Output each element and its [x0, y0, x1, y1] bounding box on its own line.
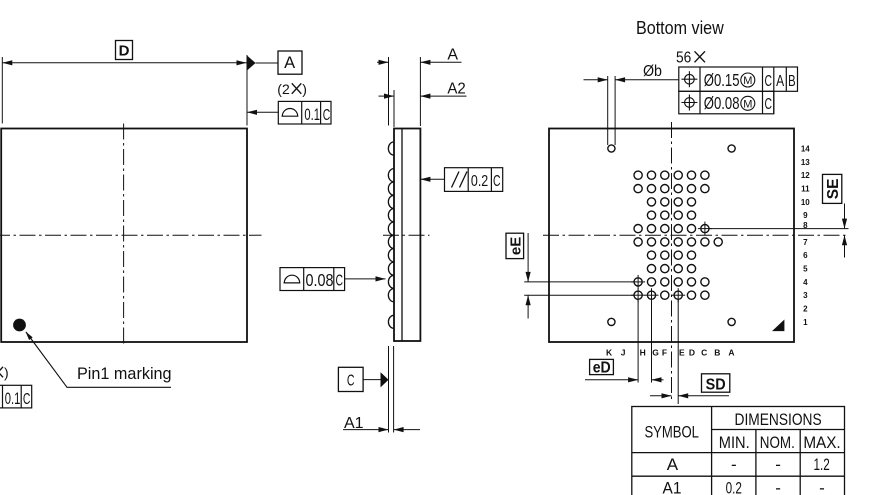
svg-text:D: D: [689, 347, 695, 357]
svg-text:M: M: [743, 98, 752, 110]
svg-text:DIMENSIONS: DIMENSIONS: [735, 411, 822, 430]
svg-text:0.2: 0.2: [471, 173, 488, 191]
dimension D extension line right: [246, 55, 248, 126]
table header MIN NOM MAX: [719, 433, 841, 452]
eE extension lines: [524, 281, 633, 283]
svg-text:A: A: [776, 71, 784, 89]
leader from parallelism FCF: [420, 177, 444, 182]
SE extension line from ball C8: [710, 228, 849, 230]
svg-text:H: H: [640, 347, 646, 357]
ball row 4: [647, 278, 709, 286]
pin1 marking label: [77, 365, 172, 383]
svg-text:A: A: [447, 46, 458, 63]
svg-text:E: E: [679, 347, 685, 357]
svg-text:K: K: [606, 347, 613, 357]
dimension A2 extension line: [393, 90, 395, 127]
svg-text:-: -: [775, 455, 781, 474]
svg-text:C: C: [336, 271, 344, 289]
svg-text:Bottom view: Bottom view: [636, 17, 724, 38]
FCF row1 text: [704, 71, 796, 91]
svg-text:0.1: 0.1: [5, 390, 21, 409]
svg-text:B: B: [714, 347, 720, 357]
FCF 0.1 C bottom-left (cut off): [0, 385, 32, 409]
svg-text:-: -: [775, 479, 781, 495]
svg-text:NOM.: NOM.: [760, 434, 795, 453]
(2X) label bottom-left (cut off): [0, 365, 9, 381]
position symbol row2: [681, 95, 697, 111]
table row A1: [663, 479, 825, 495]
svg-text:A: A: [728, 347, 734, 357]
svg-text:M: M: [743, 75, 752, 87]
pin1 marking dot: [13, 319, 26, 332]
svg-text:(2: (2: [277, 81, 290, 97]
SD extension line from ball E3: [677, 300, 679, 404]
svg-text:A: A: [284, 54, 295, 72]
eE dimension line: [526, 233, 531, 319]
svg-text:C: C: [701, 347, 707, 357]
eD extension lines from balls H3 H4: [637, 300, 639, 383]
svg-text:10: 10: [801, 198, 810, 207]
top view package outline: [1, 129, 247, 343]
seating plane FCF 0.1 C: [278, 101, 331, 125]
position FCF frame: [679, 67, 798, 114]
svg-text:A2: A2: [447, 80, 465, 98]
svg-text:B: B: [788, 71, 795, 90]
svg-text:13: 13: [801, 158, 810, 167]
datum A symbol: [247, 51, 302, 74]
svg-text:C: C: [764, 95, 772, 113]
svg-text:56: 56: [676, 49, 691, 67]
svg-text:-: -: [731, 455, 737, 474]
crossed balls (datum targets): [631, 222, 712, 303]
svg-text:D: D: [119, 43, 130, 60]
svg-text:C: C: [323, 106, 331, 124]
top view horizontal centerline: [0, 234, 262, 236]
svg-text:A: A: [667, 455, 679, 474]
diameter b dimension line: [584, 77, 679, 82]
svg-text:1.2: 1.2: [813, 456, 829, 475]
dimension A2 line: [379, 94, 467, 99]
svg-text:1: 1: [803, 318, 808, 327]
svg-text:6: 6: [803, 251, 808, 260]
svg-text:4: 4: [803, 278, 808, 287]
bottom view package outline: [549, 129, 794, 343]
svg-text:Ø0.08: Ø0.08: [704, 94, 740, 113]
svg-text:SD: SD: [706, 376, 726, 394]
dimension label D: [116, 41, 133, 60]
side view centerline: [383, 234, 430, 236]
ball row 5: [647, 265, 695, 273]
svg-text:11: 11: [801, 185, 810, 194]
SD label: [702, 374, 730, 394]
svg-text:5: 5: [803, 265, 808, 274]
dimension A extension line (right face): [419, 57, 421, 126]
table header SYMBOL: [644, 423, 699, 442]
bottom view title: [636, 17, 724, 38]
svg-text:7: 7: [803, 238, 808, 247]
label Ob: [643, 62, 662, 80]
ball row 7: [634, 238, 722, 246]
seating plane extension lines below package: [388, 346, 390, 433]
ball row 10: [647, 198, 695, 206]
ball row 11: [634, 185, 709, 193]
svg-text:eD: eD: [593, 360, 611, 377]
svg-text:0.2: 0.2: [726, 480, 742, 495]
svg-text:Ø0.15: Ø0.15: [704, 71, 740, 90]
svg-text:A1: A1: [663, 479, 682, 495]
dimension label A: [447, 46, 458, 63]
svg-text:12: 12: [801, 171, 810, 180]
ball row 3: [661, 291, 709, 299]
svg-text:C: C: [493, 172, 501, 190]
svg-text:9: 9: [803, 211, 808, 220]
diameter b tangent extension lines: [607, 76, 609, 145]
column letter labels: [606, 347, 735, 357]
svg-text:eE: eE: [508, 237, 525, 255]
svg-text:Øb: Øb: [643, 62, 662, 80]
row number labels: [801, 144, 810, 326]
svg-text:MAX.: MAX.: [803, 433, 840, 452]
svg-text:SE: SE: [825, 179, 842, 200]
svg-text:MIN.: MIN.: [719, 434, 750, 452]
svg-text:Pin1 marking: Pin1 marking: [77, 365, 172, 383]
side view substrate line: [401, 129, 403, 342]
ball row 6: [647, 251, 695, 259]
svg-text:): ): [302, 81, 307, 97]
eD dimension line: [585, 377, 664, 382]
pin1 corner triangle in bottom view: [772, 320, 784, 332]
(2X) label top: [277, 81, 307, 97]
svg-text:SYMBOL: SYMBOL: [644, 423, 699, 442]
ball row 9: [647, 211, 695, 219]
svg-text:G: G: [652, 347, 659, 357]
eE label: [506, 233, 525, 258]
leader from FCF 0.1 C to package edge: [247, 110, 278, 115]
SE dimension line: [842, 204, 847, 258]
dimension D line: [2, 60, 246, 65]
parallelism FCF 0.2 C: [445, 168, 503, 192]
svg-text:0.1: 0.1: [304, 106, 320, 125]
svg-text:2: 2: [803, 305, 808, 314]
dimension A1 line: [343, 427, 420, 432]
table row A: [667, 455, 830, 475]
dimension A extension line (ball extreme): [388, 57, 390, 126]
svg-text:C: C: [23, 390, 31, 408]
dimension D extension line left: [1, 57, 3, 124]
corner balls K14 A14 K1 A1: [608, 145, 735, 326]
svg-text:-: -: [819, 479, 825, 495]
table header DIMENSIONS: [735, 411, 822, 430]
eD label: [590, 359, 614, 376]
svg-text:C: C: [764, 72, 772, 90]
ball row 8: [634, 225, 696, 233]
bottom view horizontal centerline: [543, 234, 849, 236]
top view vertical centerline: [123, 124, 125, 345]
datum C symbol: [338, 367, 388, 391]
leader from coplanarity FCF to balls: [345, 276, 386, 281]
position symbol row1: [681, 71, 697, 87]
side view solder ball profile bumps: [388, 142, 394, 329]
svg-text:0.08: 0.08: [306, 271, 334, 291]
SD dimension line: [650, 393, 729, 398]
bottom view vertical centerline: [671, 122, 673, 401]
SE label: [823, 174, 842, 203]
svg-text:C: C: [347, 371, 355, 389]
dimension A line: [377, 60, 462, 65]
svg-text:A1: A1: [344, 415, 364, 432]
dimension label A2: [447, 80, 465, 98]
pin1 leader line: [26, 332, 172, 388]
svg-text:3: 3: [803, 291, 808, 300]
svg-text:J: J: [621, 347, 626, 357]
ball row 12: [634, 171, 709, 179]
dimensions table: [632, 407, 845, 495]
svg-text:14: 14: [801, 144, 810, 153]
side view package body: [394, 129, 420, 342]
dimension label A1: [344, 415, 364, 432]
FCF row2 text: [704, 94, 772, 113]
svg-text:F: F: [662, 347, 667, 357]
coplanarity FCF 0.08 C: [280, 268, 345, 291]
label 56X: [676, 49, 705, 67]
svg-text:): ): [4, 365, 9, 381]
